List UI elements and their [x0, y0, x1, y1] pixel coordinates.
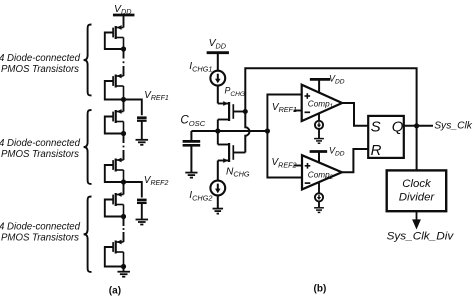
node PCHG gate junction	[243, 109, 248, 114]
node junction at M4 drain	[121, 179, 126, 184]
wire M1 junction to dashdot	[123, 49, 125, 52]
net label VDD (comp1)	[329, 73, 345, 85]
label Comp2	[308, 170, 334, 181]
current source ICHG1	[210, 71, 225, 86]
wire NCHG gate	[233, 152, 245, 154]
wire VREF1 to comp1 minus	[294, 110, 302, 112]
label Comp1	[308, 99, 333, 110]
latch pin Q	[392, 118, 404, 135]
wire divider output arrow	[412, 211, 421, 229]
net label Sys_Clk	[434, 120, 473, 131]
wire comp2 output to R	[342, 149, 368, 172]
svg-text:R: R	[371, 142, 382, 159]
node junction at M2 drain	[121, 97, 126, 102]
transistor M3 diode-connected PMOS	[105, 109, 124, 133]
wire feedback Sys_Clk to gates with hop over COSC line	[245, 68, 416, 170]
wire VREF1 tap	[124, 100, 142, 116]
svg-text:4 Diode-connected: 4 Diode-connected	[0, 138, 80, 149]
current source ICHG2	[210, 181, 225, 196]
wire ICHG2 to ground	[217, 195, 219, 208]
net label VREF2 (column a)	[144, 175, 169, 187]
wire dash-dot M5 to M6	[123, 219, 125, 239]
clock divider box	[387, 170, 447, 211]
label group 3 text	[0, 222, 80, 244]
capacitor C1 (VREF1 filter)	[137, 118, 147, 140]
transistor M2 diode-connected PMOS	[105, 74, 124, 100]
wire M5 junction to dashdot	[123, 217, 125, 220]
wire dash-dot M3 to M4	[123, 136, 125, 157]
wire VREF2 node down to M5 source	[123, 182, 125, 195]
label ICHG2	[189, 190, 212, 202]
net label VREF2 (comp2 input)	[272, 157, 297, 169]
wire VDD to M1 source	[123, 15, 125, 28]
comp2 plus sign	[305, 163, 311, 169]
op-amp Comp2 triangle	[302, 155, 342, 189]
wire Q output	[404, 125, 433, 127]
wire VREF2 to comp2 plus	[294, 165, 302, 167]
svg-text:(b): (b)	[314, 283, 327, 294]
wire dash-dot M1 to M2	[123, 52, 125, 74]
node junction at M3 drain	[121, 131, 126, 136]
transistor M6 diode-connected PMOS	[105, 240, 124, 267]
svg-text:S: S	[371, 118, 381, 135]
svg-text:4 Diode-connected: 4 Diode-connected	[0, 222, 80, 233]
svg-text:PMOS Transistors: PMOS Transistors	[1, 233, 79, 244]
wire into M2 source	[123, 73, 125, 77]
comp1 plus sign	[305, 93, 311, 99]
ground (VREF1 cap)	[136, 140, 149, 145]
label ICHG1	[189, 61, 212, 73]
power rail VDD (comp2)	[310, 152, 328, 163]
ground (ICHG2)	[213, 209, 224, 214]
node junction at M5 drain	[121, 214, 126, 219]
svg-text:Sys_Clk_Div: Sys_Clk_Div	[387, 231, 455, 243]
net label Sys_Clk_Div	[387, 231, 455, 243]
transistor M4 diode-connected PMOS	[105, 158, 124, 182]
svg-text:Sys_Clk: Sys_Clk	[434, 120, 473, 131]
svg-text:Q: Q	[392, 118, 404, 135]
brace group 3	[84, 197, 92, 273]
power rail VDD (comp1)	[310, 79, 330, 92]
power rail VDD (ICHG1)	[207, 51, 229, 54]
comp1 minus sign	[305, 111, 311, 113]
net label VDD (column a)	[114, 4, 132, 16]
ground (comp1 bias)	[314, 139, 324, 144]
net label VDD (ICHG1)	[209, 38, 227, 50]
caption (b)	[314, 283, 327, 294]
transistor M5 diode-connected PMOS	[105, 192, 124, 216]
latch pin S	[371, 118, 381, 135]
wire comp1 output to S	[342, 103, 368, 126]
latch pin R	[371, 142, 382, 159]
node Sys_Clk junction	[414, 123, 419, 128]
wire dashdot to M4 source	[123, 157, 125, 161]
ground (COSC)	[185, 173, 197, 178]
wire COSC to comp inputs	[267, 95, 302, 178]
power rail VDD (column a)	[113, 14, 135, 17]
wire ICHG1 to PCHG source	[217, 86, 219, 104]
label PCHG	[225, 85, 246, 98]
ground (VREF2 cap)	[136, 220, 149, 225]
label COSC	[180, 114, 205, 128]
node comparator input junction	[265, 128, 270, 133]
transistor PCHG (PMOS)	[218, 101, 234, 131]
label NCHG	[226, 166, 250, 178]
brace group 1	[84, 25, 92, 96]
brace group 2	[84, 110, 92, 184]
transistor M1 diode-connected PMOS	[105, 25, 124, 49]
caption (a)	[109, 286, 121, 297]
svg-text:Clock: Clock	[402, 178, 432, 190]
ground (column a bottom)	[117, 272, 130, 277]
net label VREF1 (comp1 input)	[272, 102, 297, 114]
capacitor C2 (VREF2 filter)	[137, 200, 147, 219]
svg-text:PMOS Transistors: PMOS Transistors	[1, 149, 79, 160]
label Clock Divider	[399, 178, 436, 203]
op-amp Comp1 triangle	[302, 85, 342, 121]
node junction at M1 drain	[121, 46, 126, 51]
capacitor COSC	[183, 131, 201, 172]
svg-text:4 Diode-connected: 4 Diode-connected	[0, 53, 80, 64]
wire VDD to ICHG1	[217, 53, 219, 71]
net label VDD (comp2)	[329, 146, 345, 158]
ground (comp2 bias)	[314, 208, 324, 213]
wire M6 to ground	[123, 267, 125, 272]
bias current source comp2	[315, 182, 323, 207]
net label VREF1 (column a)	[144, 90, 169, 102]
svg-text:PMOS Transistors: PMOS Transistors	[1, 64, 79, 75]
SR latch box	[368, 116, 404, 158]
wire COSC node	[191, 130, 267, 132]
label group 1 text	[0, 53, 80, 75]
svg-text:(a): (a)	[109, 286, 121, 297]
wire VREF2 tap	[124, 182, 142, 198]
transistor NCHG (NMOS)	[218, 131, 234, 181]
comp2 minus sign	[305, 182, 311, 184]
wire PCHG gate	[233, 111, 245, 113]
node junction at M6 drain	[121, 264, 126, 269]
bias current source comp1	[315, 113, 323, 138]
wire into M6 source	[123, 239, 125, 243]
label group 2 text	[0, 138, 80, 160]
svg-text:Divider: Divider	[399, 191, 436, 203]
node COSC junction	[215, 128, 220, 133]
wire VREF1 node down to M3 source	[123, 100, 125, 112]
